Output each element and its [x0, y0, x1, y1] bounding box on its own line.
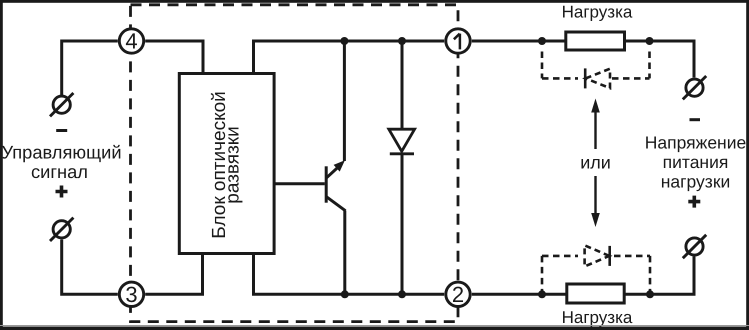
arrow up (or-selector) — [591, 99, 600, 150]
wire: pin 3 to block bottom-left pin — [145, 254, 202, 295]
outer border frame — [0, 0, 749, 3]
svg-text:2: 2 — [452, 282, 464, 307]
dashed enclosure box — [131, 5, 459, 322]
svg-text:3: 3 — [125, 282, 137, 307]
node: bottom load left — [538, 290, 546, 298]
wire: bottom load resistor to right bottom terminal — [624, 257, 694, 295]
svg-text:или: или — [580, 152, 611, 172]
base wire — [274, 182, 325, 185]
svg-text:питания: питания — [663, 152, 729, 172]
svg-text:4: 4 — [125, 29, 137, 54]
pin circle 3 — [119, 282, 143, 307]
svg-text:сигнал: сигнал — [31, 161, 88, 182]
wire: transistor collector to top rail — [343, 41, 346, 161]
wire: left bottom terminal to pin 3 — [62, 240, 118, 295]
wire: pin 4 to block top-left pin — [145, 41, 203, 74]
transistor Q1 — [274, 160, 346, 211]
terminal: load supply plus (bottom right) — [683, 235, 706, 258]
node: bottom load right — [646, 290, 654, 298]
wire: diode anode to top rail — [401, 41, 404, 130]
node: junction diode/top rail — [398, 37, 406, 45]
load resistor (bottom) — [567, 284, 624, 303]
wire: pin 2 to bottom load resistor — [472, 293, 567, 296]
load resistor (top) — [566, 32, 625, 50]
pin circle 1 — [446, 29, 470, 53]
polarity minus (left) — [56, 129, 67, 132]
node: top load left — [538, 37, 546, 45]
pin circle 4 — [119, 29, 143, 54]
optional protection diode (bottom, dashed) — [542, 245, 650, 292]
node: junction emitter/bottom rail — [341, 290, 349, 298]
optocoupler block U1 — [179, 74, 274, 254]
wire: transistor emitter to bottom rail — [343, 211, 346, 295]
wire: top load resistor to right top terminal — [625, 41, 695, 78]
terminal: load supply minus (top right) — [683, 76, 706, 99]
wire — [62, 41, 694, 294]
svg-text:Нагрузка: Нагрузка — [562, 308, 633, 327]
svg-text:Управляющий: Управляющий — [1, 142, 121, 163]
svg-text:Нагрузка: Нагрузка — [562, 3, 633, 22]
pin circle 2 — [446, 282, 470, 307]
svg-text:Напряжение: Напряжение — [645, 133, 746, 153]
svg-text:развязки: развязки — [223, 126, 244, 203]
polarity plus (left) — [56, 186, 68, 198]
terminal: control signal plus (bottom left) — [50, 218, 73, 241]
wire: block bottom-right pin to pin 2 — [254, 254, 445, 295]
optional protection diode (top, dashed) — [542, 52, 650, 89]
svg-text:нагрузки: нагрузки — [661, 172, 731, 192]
diode D1 — [389, 129, 415, 154]
collector diagonal with arrow — [327, 165, 342, 178]
wire: block top-right pin to pin 1 — [254, 41, 445, 74]
wire: left top terminal to pin 4 — [62, 41, 118, 96]
polarity minus (right) — [690, 118, 701, 121]
node: junction diode/bottom rail — [398, 290, 406, 298]
polarity plus (right) — [688, 196, 700, 208]
node: junction collector/top rail — [340, 37, 348, 45]
node: top load right — [646, 37, 654, 45]
wire: pin 1 to top load resistor — [472, 40, 566, 43]
arrow down (or-selector) — [591, 176, 600, 227]
wire: diode cathode to bottom rail — [401, 154, 404, 295]
terminal: control signal minus (top left) — [50, 93, 73, 116]
emitter diagonal — [327, 197, 346, 211]
base bar — [325, 166, 328, 202]
